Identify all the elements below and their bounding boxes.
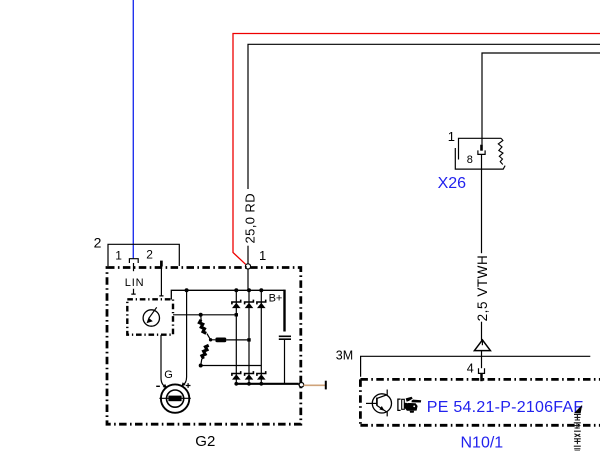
svg-text:2,5 VTWH: 2,5 VTWH [475, 255, 490, 322]
svg-text:X26: X26 [438, 175, 467, 192]
svg-text:N10/1: N10/1 [461, 434, 504, 451]
svg-text:8: 8 [467, 154, 473, 166]
svg-text:2: 2 [146, 247, 153, 261]
svg-text:2: 2 [94, 235, 102, 251]
svg-text:3M: 3M [336, 349, 353, 363]
svg-text:1: 1 [259, 248, 266, 263]
svg-text:LIN: LIN [125, 277, 145, 289]
svg-text:PE 54.21-P-2106FAF: PE 54.21-P-2106FAF [427, 399, 584, 416]
svg-text:1: 1 [115, 248, 122, 262]
svg-text:25,0 RD: 25,0 RD [243, 193, 258, 244]
svg-text:G2: G2 [195, 433, 215, 450]
svg-text:G: G [164, 369, 173, 381]
svg-text:4: 4 [467, 361, 474, 375]
svg-text:1: 1 [448, 129, 455, 144]
svg-text:B+: B+ [269, 293, 283, 305]
